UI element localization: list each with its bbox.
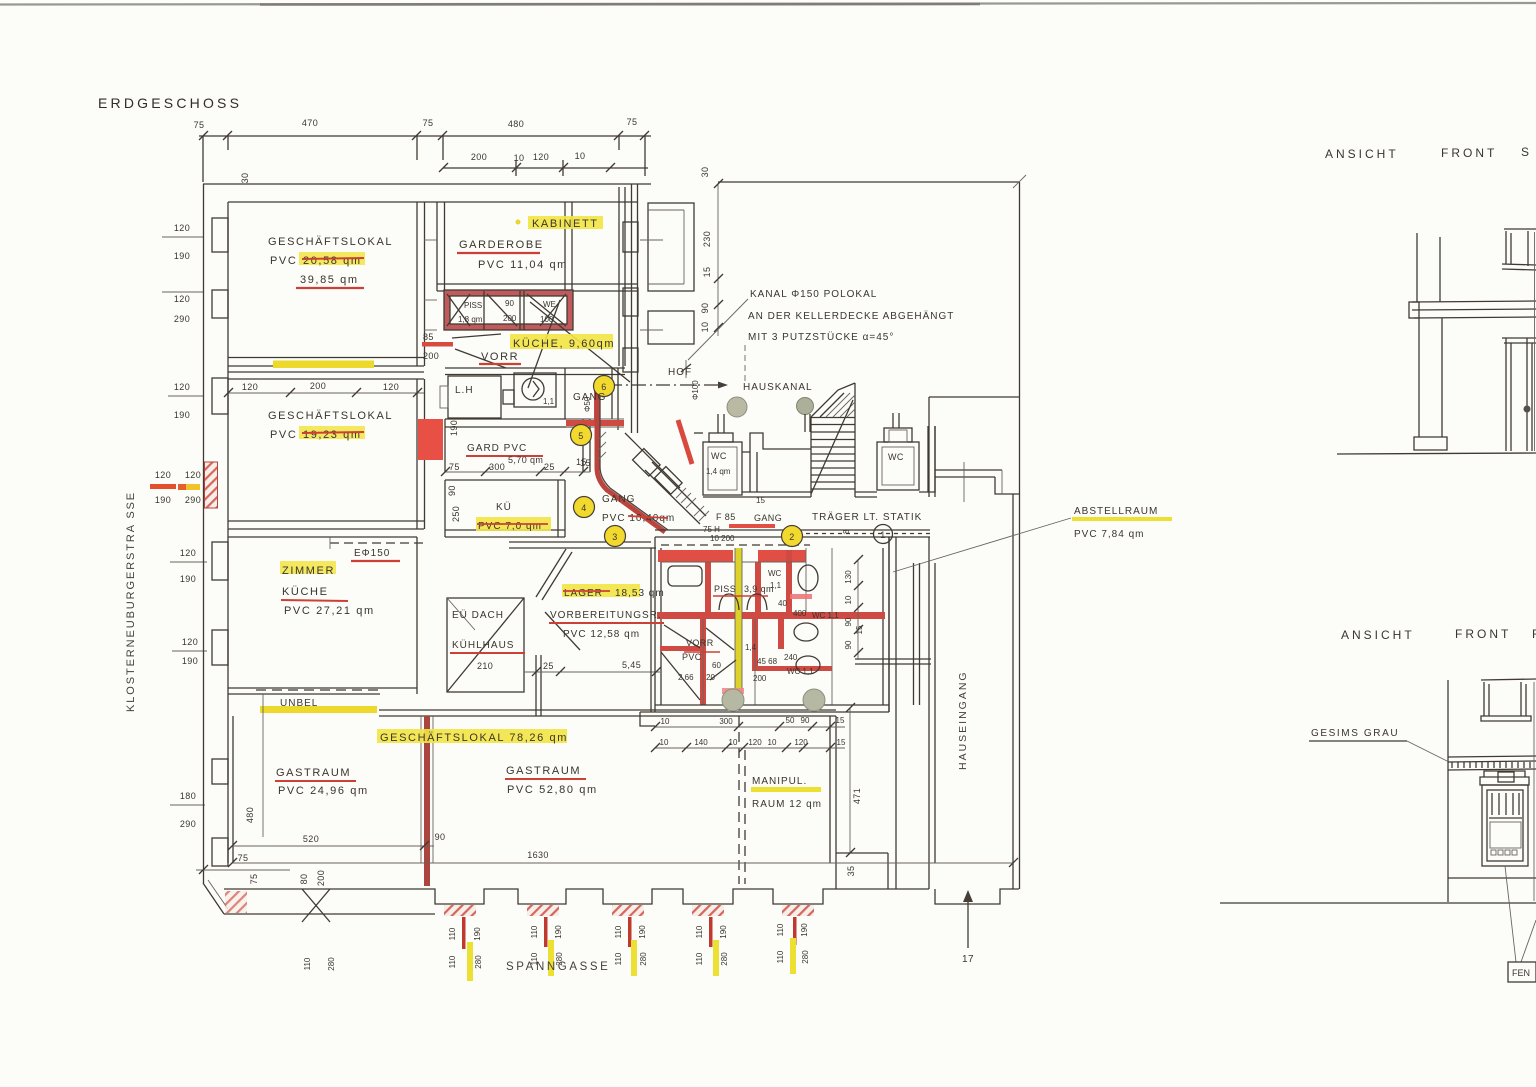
svg-text:75: 75	[627, 117, 638, 127]
svg-text:2,66: 2,66	[678, 673, 694, 682]
svg-text:8: 8	[842, 529, 851, 534]
svg-text:110: 110	[776, 923, 785, 936]
dim line 1630	[232, 862, 1013, 864]
gard pvc dim line	[445, 471, 590, 473]
yellow window bar in room1 bottom wall	[273, 361, 374, 369]
svg-text:39,85 qm: 39,85 qm	[300, 274, 359, 286]
svg-text:190: 190	[155, 495, 171, 505]
elevation2 window frame	[1482, 785, 1528, 866]
svg-text:60: 60	[712, 661, 721, 670]
unbel left boundary	[262, 694, 264, 837]
svg-text:90: 90	[505, 299, 514, 308]
svg-text:200: 200	[316, 870, 326, 886]
svg-text:140: 140	[694, 738, 708, 747]
elevation1 top window	[1505, 231, 1507, 264]
manipul right wall	[829, 716, 831, 863]
svg-text:GARDEROBE: GARDEROBE	[459, 239, 544, 251]
svg-text:PVC: PVC	[682, 652, 702, 662]
svg-text:MIT 3 PUTZSTÜCKE α=45°: MIT 3 PUTZSTÜCKE α=45°	[748, 331, 894, 343]
washbasin piss room	[668, 566, 702, 586]
dashed canal line in zimmer	[330, 542, 424, 544]
hof tick	[685, 360, 687, 378]
elevation right scan-cut verticals	[1534, 232, 1536, 451]
svg-text:1,4: 1,4	[745, 643, 757, 652]
partition thin lines sanitary	[661, 548, 883, 705]
window niche right wall a	[623, 222, 638, 252]
gang room top walls	[564, 368, 566, 419]
wc right pipes	[892, 413, 894, 428]
elevation2 cornice with dentils	[1448, 756, 1536, 757]
svg-text:GANG: GANG	[602, 494, 635, 505]
svg-text:GANG: GANG	[573, 392, 606, 403]
gastraum top wall	[379, 709, 836, 711]
door niche 7 left wall	[212, 838, 228, 866]
svg-text:PVC 7,0 qm: PVC 7,0 qm	[478, 521, 542, 532]
svg-text:35: 35	[846, 866, 856, 877]
window sill hatches bottom	[444, 905, 476, 916]
gray circle left	[727, 397, 747, 417]
window niche 4 left wall	[212, 542, 228, 580]
svg-text:KÜ: KÜ	[496, 501, 512, 513]
svg-text:10: 10	[514, 153, 525, 163]
svg-text:VORBEREITUNGSR.: VORBEREITUNGSR.	[550, 610, 662, 621]
svg-text:290: 290	[174, 314, 190, 324]
red gang pipe curve	[597, 390, 665, 532]
red marked wall between gastraeume	[424, 716, 430, 886]
svg-text:10: 10	[700, 322, 710, 333]
svg-text:HOF: HOF	[668, 367, 692, 378]
svg-text:PVC 52,80 qm: PVC 52,80 qm	[507, 784, 598, 796]
red mark lower wc	[722, 688, 744, 694]
svg-text:1630: 1630	[527, 850, 549, 860]
zimmer kueche bottom wall	[228, 687, 417, 689]
svg-text:PVC: PVC	[270, 429, 297, 441]
svg-text:110: 110	[695, 925, 704, 938]
svg-text:WC 1,1: WC 1,1	[787, 667, 814, 676]
yellow bar unbel	[260, 706, 377, 713]
svg-text:120: 120	[155, 470, 171, 480]
svg-text:75 H: 75 H	[703, 525, 720, 534]
svg-text:1: 1	[880, 530, 885, 540]
scan top edge line	[0, 3, 1536, 5]
svg-text:250: 250	[451, 506, 461, 522]
elevation1 upper wall corner verticals	[1416, 233, 1418, 302]
zimmer kueche labels	[280, 561, 336, 574]
svg-text:GESCHÄFTSLOKAL: GESCHÄFTSLOKAL	[268, 410, 393, 422]
manipul top lines	[640, 712, 655, 726]
svg-text:5: 5	[578, 431, 583, 441]
elevation2 window hood	[1480, 777, 1529, 785]
svg-text:300: 300	[489, 462, 505, 472]
light well upper rect	[648, 203, 694, 291]
yellow pipe vertical	[735, 548, 742, 702]
corner red hatch	[225, 891, 247, 913]
svg-text:KÜHLHAUS: KÜHLHAUS	[452, 639, 514, 651]
svg-text:PVC 12,58 qm: PVC 12,58 qm	[563, 629, 640, 640]
svg-text:1,1: 1,1	[770, 581, 782, 590]
svg-text:Φ100: Φ100	[691, 380, 700, 400]
svg-text:10: 10	[575, 151, 586, 161]
red band under gang room	[566, 420, 624, 426]
abstell room wall vertical	[888, 537, 890, 712]
svg-text:PISS: PISS	[464, 301, 482, 310]
red mark under wc upper	[790, 594, 812, 599]
svg-text:290: 290	[180, 819, 196, 829]
svg-text:PISS: PISS	[714, 584, 736, 594]
rotated 110 190 texts under windows	[303, 923, 810, 971]
bottom wall outer face with window recesses	[224, 889, 836, 904]
svg-text:120: 120	[748, 738, 762, 747]
svg-text:15: 15	[756, 496, 765, 505]
svg-text:5,45: 5,45	[622, 660, 641, 670]
svg-text:EÜ DACH: EÜ DACH	[452, 609, 504, 621]
svg-text:120: 120	[383, 382, 399, 392]
urinal 2	[747, 594, 767, 610]
wc left pipes up	[717, 414, 719, 433]
svg-text:ZIMMER: ZIMMER	[282, 565, 335, 577]
window niche 5 left wall	[212, 630, 228, 665]
dim line 120 200 120 under room1	[228, 392, 424, 394]
room1 bottom wall	[228, 357, 424, 359]
room2 bottom wall	[228, 520, 424, 522]
urinal 1	[719, 594, 739, 610]
svg-text:120: 120	[794, 738, 808, 747]
red bar under 85	[422, 342, 453, 347]
elevation2 window lower panes	[1490, 822, 1521, 848]
red mid band	[657, 612, 885, 619]
traeger dashed beam	[790, 533, 930, 535]
svg-text:F 85: F 85	[716, 512, 736, 522]
abstell step wall	[836, 852, 888, 854]
svg-text:WC: WC	[768, 569, 782, 578]
light well upper rect inner line	[683, 210, 685, 284]
svg-text:280: 280	[720, 952, 729, 966]
rotated dims right of sanitary	[844, 570, 864, 650]
svg-text:ANSICHT: ANSICHT	[1341, 628, 1415, 642]
svg-text:40: 40	[778, 599, 787, 608]
diag door marks lower sanitary	[545, 612, 736, 680]
svg-text:AN DER KELLERDECKE ABGEHÄNGT: AN DER KELLERDECKE ABGEHÄNGT	[748, 310, 954, 322]
svg-text:120: 120	[174, 382, 190, 392]
shaft ticks between room1 and garderobe	[424, 239, 437, 241]
svg-text:75: 75	[423, 118, 434, 128]
svg-text:LAGER: LAGER	[564, 588, 603, 599]
svg-text:190: 190	[174, 251, 190, 261]
svg-text:110: 110	[776, 950, 785, 963]
svg-text:10: 10	[729, 738, 738, 747]
vorbereitung room left wall	[650, 548, 652, 712]
courtyard jag boundary above wc	[694, 432, 703, 434]
kuehlhaus diagonal	[447, 598, 524, 692]
corridor kite door 1	[633, 449, 661, 477]
top dimension ticks	[199, 131, 649, 140]
sanitary partitions	[483, 291, 485, 330]
garderobe bottom wall	[437, 283, 637, 285]
svg-text:GESIMS GRAU: GESIMS GRAU	[1311, 728, 1399, 739]
gastraum left wall lower	[232, 716, 234, 863]
pipe from mid circle	[804, 414, 806, 432]
svg-text:GARD PVC: GARD PVC	[467, 443, 527, 454]
svg-text:300: 300	[719, 717, 733, 726]
svg-text:FRONT: FRONT	[1441, 146, 1497, 160]
svg-text:20: 20	[706, 673, 715, 682]
geschaeftslokal 78 label	[377, 729, 567, 743]
garderobe left wall double	[436, 202, 438, 291]
sanitary block lower: outer frame	[655, 537, 889, 712]
svg-text:85: 85	[423, 332, 434, 342]
right outer wall inner face	[1012, 494, 1014, 889]
svg-text:15: 15	[855, 625, 864, 634]
diagonal door swing vorr	[452, 334, 501, 338]
gard pvc room right wall	[582, 419, 584, 472]
elevation2 upper window	[1483, 682, 1485, 716]
svg-text:PVC 27,21 qm: PVC 27,21 qm	[284, 605, 375, 617]
red ticks + yellow bars under windows	[462, 917, 797, 981]
svg-text:MANIPUL.: MANIPUL.	[752, 776, 807, 787]
red marked wall chunk right of room2	[418, 419, 443, 460]
red top bar right	[758, 550, 806, 562]
right outer wall of parcel	[1019, 182, 1021, 889]
svg-text:190: 190	[473, 927, 482, 941]
svg-text:75: 75	[249, 874, 259, 885]
svg-text:FRONT: FRONT	[1455, 627, 1511, 641]
room2 right wall	[416, 379, 418, 529]
svg-text:FEN: FEN	[1512, 968, 1530, 978]
svg-text:471: 471	[852, 788, 862, 804]
yellow-orange highlight bar right	[178, 484, 200, 490]
svg-text:90: 90	[447, 485, 457, 496]
svg-text:GESCHÄFTSLOKAL: GESCHÄFTSLOKAL	[268, 236, 393, 248]
elevation1 cornice band	[1412, 301, 1536, 302]
svg-text:GESCHÄFTSLOKAL 78,26 qm: GESCHÄFTSLOKAL 78,26 qm	[380, 732, 568, 744]
sanitary diagonals	[447, 294, 470, 326]
svg-text:1,8 qm: 1,8 qm	[458, 315, 483, 324]
kuehlhaus rect	[447, 598, 524, 692]
highlighted 120 120 / 190 290 labels	[155, 470, 201, 505]
door niche 6 left wall	[212, 759, 228, 784]
svg-text:230: 230	[702, 231, 712, 247]
corner tick top right	[1013, 175, 1026, 188]
svg-text:GANG: GANG	[754, 513, 782, 523]
svg-text:KABINETT: KABINETT	[532, 218, 599, 230]
secondary dimension line 200 10 120 10	[439, 160, 648, 176]
red hatched wall piece left wall	[205, 462, 218, 508]
svg-text:WC 1,1: WC 1,1	[812, 611, 839, 620]
svg-text:KÜCHE: KÜCHE	[282, 586, 329, 598]
svg-text:90: 90	[435, 832, 446, 842]
gray circle b bottom	[803, 689, 825, 711]
svg-text:10: 10	[661, 717, 670, 726]
unbel dashed wall	[256, 689, 380, 691]
svg-text:190: 190	[638, 925, 647, 939]
svg-text:180: 180	[180, 791, 196, 801]
svg-text:30: 30	[240, 173, 250, 184]
svg-text:480: 480	[508, 119, 524, 129]
red diagonal highlight hof side	[678, 420, 692, 464]
circle 2 yellow	[782, 526, 803, 547]
boiler connector	[503, 390, 514, 404]
circle 4 yellow	[574, 497, 595, 518]
gard pvc room: top wall red marked	[445, 418, 590, 420]
svg-text:480: 480	[245, 807, 255, 823]
svg-text:SPANNGASSE: SPANNGASSE	[506, 961, 610, 973]
svg-text:10 200: 10 200	[710, 534, 735, 543]
svg-text:400: 400	[793, 609, 807, 618]
svg-text:WC: WC	[888, 452, 904, 462]
gard pvc room left wall	[444, 419, 446, 472]
svg-text:F: F	[1532, 627, 1536, 641]
wc oval mid	[794, 623, 818, 641]
south boundary of courtyard steps	[855, 491, 877, 493]
svg-text:110: 110	[303, 957, 312, 970]
elevation1 plinth	[1414, 437, 1447, 450]
svg-text:110: 110	[614, 952, 623, 965]
svg-text:GASTRAUM: GASTRAUM	[506, 765, 581, 777]
svg-text:520: 520	[303, 834, 319, 844]
top dimension line	[199, 136, 651, 182]
svg-text:20,58 qm: 20,58 qm	[303, 255, 362, 267]
svg-text:75: 75	[238, 853, 249, 863]
svg-text:45 68: 45 68	[757, 657, 778, 666]
svg-text:210: 210	[477, 661, 493, 671]
svg-text:90: 90	[700, 303, 710, 314]
svg-text:280: 280	[639, 952, 648, 966]
svg-text:RAUM 12 qm: RAUM 12 qm	[752, 799, 822, 810]
svg-text:1,4 qm: 1,4 qm	[706, 467, 731, 476]
LH left tab	[440, 386, 448, 408]
svg-text:90: 90	[844, 617, 853, 626]
svg-text:50: 50	[786, 716, 795, 725]
svg-text:120: 120	[185, 470, 201, 480]
hauskanal riser dash	[744, 345, 746, 382]
svg-text:KANAL Φ150 POLOKAL: KANAL Φ150 POLOKAL	[750, 289, 877, 300]
dashed line above piss room	[661, 544, 810, 546]
zimmer kueche right wall	[416, 537, 418, 694]
svg-text:110: 110	[448, 927, 457, 940]
svg-text:WC: WC	[711, 451, 727, 461]
window niche row1 left wall	[212, 218, 228, 252]
elevation2 hood neck	[1498, 772, 1514, 782]
svg-text:280: 280	[327, 957, 336, 971]
LH room	[448, 376, 501, 418]
wc oval upper right	[798, 565, 818, 591]
corner dim ticks	[196, 869, 290, 871]
svg-text:2: 2	[789, 532, 794, 542]
window niche right wall c	[623, 348, 638, 372]
light well lower rect	[648, 311, 694, 344]
top wall inner face	[228, 201, 637, 203]
dim line 520 / 90	[232, 845, 434, 847]
abstellraum pointer line	[893, 518, 1071, 572]
svg-text:200: 200	[503, 314, 517, 323]
wc right room	[877, 442, 919, 490]
window niche 2 left wall	[212, 290, 228, 318]
bottom wall left lower band	[224, 913, 435, 915]
lager room left wall	[536, 549, 566, 597]
svg-text:10: 10	[768, 738, 777, 747]
svg-text:5,70 qm: 5,70 qm	[508, 455, 543, 465]
svg-text:190: 190	[719, 925, 728, 939]
abstellraum right wall	[913, 563, 915, 705]
kabinett label	[528, 216, 603, 229]
svg-text:S: S	[1521, 145, 1532, 159]
hof vertical dim line	[717, 184, 719, 336]
circle 6 yellow top	[594, 376, 615, 397]
elevation1 shop door	[1505, 338, 1507, 451]
svg-text:110: 110	[695, 952, 704, 965]
corridor lower diagonal wall	[645, 470, 700, 524]
svg-text:L.H: L.H	[455, 385, 474, 396]
outer wall left: outer face	[203, 184, 205, 883]
top wall outer face	[203, 183, 651, 185]
corner chamfer	[203, 883, 224, 914]
wc left room	[703, 442, 742, 495]
svg-text:TRÄGER LT. STATIK: TRÄGER LT. STATIK	[812, 511, 922, 523]
svg-text:80: 80	[299, 874, 309, 885]
svg-text:PVC 24,96 qm: PVC 24,96 qm	[278, 785, 369, 797]
dim row upper 300 50 90	[655, 726, 845, 728]
svg-text:PVC: PVC	[270, 255, 297, 267]
svg-text:470: 470	[302, 118, 318, 128]
svg-text:15: 15	[702, 267, 712, 278]
window niche 3 left wall	[212, 378, 228, 414]
lager labels	[562, 584, 640, 597]
room2 top wall	[228, 371, 424, 373]
stairs upper flight triangle	[811, 383, 855, 417]
svg-text:25: 25	[543, 661, 554, 671]
room1 right wall double	[416, 202, 418, 366]
svg-text:280: 280	[801, 950, 810, 964]
light well side ticks	[640, 239, 663, 241]
wc left neck	[709, 433, 733, 442]
svg-text:KÜCHE, 9,60qm: KÜCHE, 9,60qm	[513, 338, 615, 350]
svg-text:15: 15	[576, 457, 587, 467]
wall between wc rooms lower	[742, 491, 811, 493]
kue room walls	[444, 480, 446, 537]
stairs side walls	[810, 417, 812, 497]
sanitary bottom wall	[655, 704, 889, 706]
svg-text:120: 120	[174, 294, 190, 304]
svg-text:VORR: VORR	[686, 638, 714, 648]
red vertical partitions lower	[700, 619, 706, 705]
svg-text:25: 25	[544, 462, 555, 472]
lager room top wall	[509, 541, 651, 543]
door swing diagonals bottom left	[302, 889, 330, 922]
corridor bottom wall y368	[445, 367, 625, 369]
svg-text:HAUSKANAL: HAUSKANAL	[743, 382, 813, 393]
svg-text:190: 190	[554, 925, 563, 939]
svg-text:UNBEL: UNBEL	[280, 698, 318, 709]
hauseingang left wall	[928, 397, 930, 497]
svg-text:10: 10	[844, 595, 853, 604]
svg-text:120: 120	[174, 223, 190, 233]
svg-text:120: 120	[180, 548, 196, 558]
courtyard top boundary	[718, 181, 1019, 183]
svg-text:VORR: VORR	[481, 351, 519, 363]
svg-text:75: 75	[194, 120, 205, 130]
hof dim numbers	[700, 167, 712, 333]
svg-text:18,53 qm: 18,53 qm	[615, 588, 665, 599]
svg-text:KLOSTERNEUBURGERSTRA SSE: KLOSTERNEUBURGERSTRA SSE	[125, 491, 137, 712]
svg-text:EΦ150: EΦ150	[354, 548, 390, 559]
elevation2 facade bottom line	[1448, 877, 1536, 879]
kuehlhaus inner corner lines	[447, 598, 475, 630]
zimmer kueche room top wall	[228, 536, 417, 538]
boiler room	[514, 373, 556, 407]
elevation1 wall below cornice	[1418, 318, 1420, 437]
svg-text:ANSICHT: ANSICHT	[1325, 147, 1399, 161]
wc oval lower	[796, 656, 820, 674]
